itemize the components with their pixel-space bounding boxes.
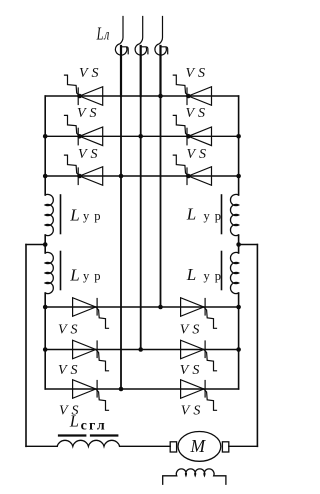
- line reactor loop phase C: [155, 17, 168, 56]
- svg-text:VS: VS: [79, 66, 103, 81]
- thyristor VS bottom-right row 1: [181, 298, 217, 329]
- svg-text:L: L: [186, 265, 196, 284]
- wire bottom row 3: [45, 388, 238, 390]
- svg-text:VS: VS: [186, 66, 210, 81]
- wire top row 2: [45, 135, 238, 137]
- wire bottom left: [26, 445, 57, 447]
- node right bus / top row 2: [236, 134, 241, 139]
- core bar right lower: [221, 252, 223, 290]
- svg-text:ур: ур: [204, 269, 227, 283]
- equalizing reactor coil left upper: [45, 194, 53, 235]
- node left bus / top row 3: [43, 174, 48, 179]
- motor brush left: [170, 442, 176, 452]
- equalizing reactor coil right upper: [230, 194, 238, 235]
- phase C conductor: [159, 46, 161, 96]
- core bar left lower: [60, 252, 62, 290]
- wire bottom row 1: [45, 306, 238, 308]
- smoothing reactor coil Lсгл: [57, 440, 119, 446]
- node right bus / bottom row 1: [236, 305, 241, 310]
- node left equalizing tap: [43, 242, 48, 247]
- node right bus / top row 3: [236, 174, 241, 179]
- node right bus / bottom row 2: [236, 347, 241, 352]
- svg-text:ур: ур: [204, 209, 227, 223]
- svg-text:VS: VS: [180, 322, 204, 337]
- phase A conductor: [120, 46, 122, 96]
- thyristor VS top-right row 2: [173, 115, 211, 145]
- wire equalizing tap right: [239, 244, 258, 246]
- svg-text:ур: ур: [83, 269, 106, 283]
- equalizing reactor coil right lower: [230, 252, 238, 293]
- motor M: [178, 432, 221, 462]
- svg-text:L: L: [69, 205, 79, 224]
- svg-text:M: M: [190, 436, 207, 456]
- svg-text:VS: VS: [78, 147, 102, 162]
- core bar right upper: [221, 195, 223, 234]
- wire left inner bus: [44, 96, 46, 389]
- wire bottom row 2: [45, 349, 238, 351]
- wire top row 1: [45, 95, 238, 97]
- node phase A / bottom row 3: [119, 387, 124, 392]
- label Lсгл: [69, 412, 107, 434]
- equalizing reactor coil left lower: [45, 252, 53, 293]
- thyristor VS bottom-right row 3: [181, 380, 217, 411]
- thyristor VS bottom-left row 2: [73, 340, 109, 371]
- wire top row 3: [45, 175, 238, 177]
- line reactor loop phase B: [135, 17, 148, 56]
- label L ур right upper: [186, 205, 226, 224]
- node phase A / top row 3: [119, 174, 124, 179]
- node phase C / bottom row 1: [158, 305, 163, 310]
- node phase B / top row 2: [138, 134, 143, 139]
- thyristor VS bottom-left row 1: [73, 298, 109, 329]
- core bars Lсгл: [59, 434, 117, 436]
- node right equalizing tap: [236, 242, 241, 247]
- wire motor to right bus: [229, 445, 258, 447]
- thyristor VS top-left row 3: [65, 155, 103, 185]
- label L ур left upper: [69, 205, 105, 224]
- svg-text:VS: VS: [58, 363, 82, 378]
- label Lл: [96, 24, 109, 44]
- motor field winding: [163, 469, 226, 484]
- svg-text:L: L: [96, 24, 104, 44]
- thyristor VS top-right row 3: [173, 155, 211, 185]
- node phase C / top row 1: [158, 94, 163, 99]
- wire outer left bus: [25, 245, 27, 447]
- svg-text:VS: VS: [58, 322, 82, 337]
- node left bus / bottom row 1: [43, 305, 48, 310]
- thyristor VS bottom-right row 2: [181, 340, 217, 371]
- svg-text:VS: VS: [187, 147, 211, 162]
- label L ур right lower: [186, 265, 226, 284]
- svg-text:VS: VS: [181, 403, 205, 418]
- thyristor VS top-left row 1: [65, 75, 103, 105]
- svg-text:л: л: [103, 26, 109, 43]
- svg-text:VS: VS: [77, 106, 101, 121]
- thyristor VS bottom-left row 3: [73, 380, 109, 411]
- node left bus / bottom row 2: [43, 347, 48, 352]
- label L ур left lower: [69, 265, 105, 284]
- wire to motor: [120, 445, 171, 447]
- wire right inner bus: [238, 96, 240, 389]
- svg-text:L: L: [69, 412, 79, 431]
- line reactor loop phase A: [115, 17, 128, 56]
- node phase B / bottom row 2: [138, 347, 143, 352]
- svg-text:L: L: [186, 205, 196, 224]
- thyristor VS top-right row 1: [173, 75, 211, 105]
- svg-text:ур: ур: [83, 209, 106, 223]
- core bar left upper: [60, 195, 62, 234]
- node left bus / top row 2: [43, 134, 48, 139]
- wire outer right bus: [256, 245, 258, 447]
- svg-text:VS: VS: [186, 106, 210, 121]
- phase B conductor: [140, 46, 142, 96]
- motor brush right: [222, 442, 228, 452]
- thyristor VS top-left row 2: [65, 115, 103, 145]
- svg-text:сгл: сгл: [81, 419, 107, 434]
- svg-text:L: L: [69, 265, 79, 284]
- wire equalizing tap left: [26, 244, 45, 246]
- svg-text:VS: VS: [180, 363, 204, 378]
